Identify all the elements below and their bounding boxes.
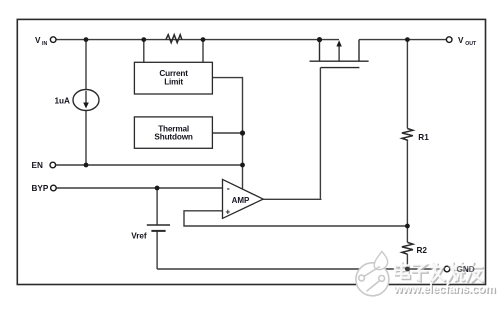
wire: thermal shutdown output: [212, 132, 242, 134]
op-amp AMP: [223, 179, 264, 218]
wire: gate vertical: [319, 68, 321, 200]
block: Thermal Shutdown: [134, 117, 212, 148]
terminal EN: [32, 161, 56, 170]
watermark logo: elecfans circle: [356, 252, 389, 296]
junction node dots: [84, 37, 410, 271]
wire: bottom rail to GND: [157, 268, 444, 270]
wire: current limit right tap: [202, 40, 204, 63]
resistor: current sense on top rail: [166, 35, 182, 43]
wire: top rail right segment to VOUT: [359, 39, 447, 41]
wire: current limit output: [212, 78, 242, 189]
terminal GND label ghost (shows through watermark): [444, 265, 475, 274]
svg-text:+: +: [225, 208, 230, 217]
block: Current Limit: [134, 62, 212, 94]
wire: current limit left tap: [143, 40, 145, 63]
svg-text:EN: EN: [32, 161, 43, 170]
svg-text:www.elecfans.com: www.elecfans.com: [393, 282, 496, 296]
terminal VOUT: [446, 36, 477, 47]
resistor R2: [402, 242, 413, 254]
terminal GND: [444, 265, 475, 274]
wire: R1 branch from top rail: [406, 40, 408, 129]
wire: BYP line to amp minus input: [56, 187, 222, 189]
wire: EN line: [56, 164, 243, 166]
wire: amp plus input feedback: [184, 211, 407, 226]
svg-text:OUT: OUT: [465, 41, 477, 47]
svg-text:R2: R2: [417, 246, 428, 255]
svg-text:GND: GND: [457, 265, 475, 274]
wire: VIN top rail left segment: [56, 39, 339, 41]
outer boundary box of block diagram: [17, 19, 485, 284]
terminal BYP: [32, 184, 57, 193]
svg-text:Vref: Vref: [131, 232, 147, 241]
svg-text:BYP: BYP: [32, 184, 49, 193]
svg-text:IN: IN: [42, 41, 47, 47]
junction node dot at R2 bottom (over watermark): [405, 267, 410, 272]
wire: 1uA branch from top rail: [85, 40, 87, 90]
svg-text:R1: R1: [418, 133, 429, 142]
svg-text:Shutdown: Shutdown: [154, 133, 193, 142]
battery: Vref: [147, 225, 170, 231]
transistor: PMOS pass element: [310, 40, 369, 68]
wire: 1uA to EN line: [85, 111, 87, 166]
wire: R1 to feedback node: [406, 141, 408, 242]
terminal VIN: [35, 36, 56, 47]
resistor R1: [402, 129, 413, 142]
svg-text:-: -: [227, 184, 230, 194]
svg-text:1uA: 1uA: [55, 97, 71, 106]
svg-text:Limit: Limit: [164, 78, 183, 87]
wire: amp output to gate: [263, 198, 321, 200]
wire: R2 bottom lead: [406, 254, 408, 269]
svg-text:AMP: AMP: [232, 196, 250, 205]
wire: Vref top lead: [156, 188, 158, 225]
svg-text:V: V: [458, 36, 464, 45]
svg-text:V: V: [35, 36, 41, 45]
current source 1uA: [73, 90, 99, 111]
wire: Vref bottom lead: [156, 231, 158, 269]
watermark text: dianzifashaoyou (drawn CJK strokes, gray shadow + white core): [395, 262, 484, 282]
